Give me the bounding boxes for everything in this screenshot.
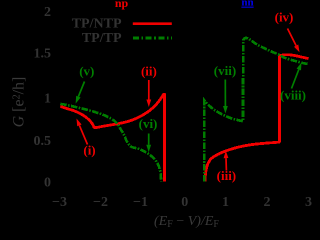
svg-text:1.5: 1.5 [34, 46, 52, 61]
svg-text:(iv): (iv) [275, 10, 294, 25]
svg-text:2: 2 [264, 195, 271, 210]
svg-text:nn: nn [241, 0, 253, 9]
svg-text:−1: −1 [133, 195, 148, 210]
arrow (i) [79, 125, 87, 144]
arrow (iii) [225, 158, 227, 170]
legend sample green dash-dot line [133, 37, 172, 40]
arrow (iv) [288, 29, 297, 46]
svg-text:(vii): (vii) [214, 63, 236, 78]
svg-text:0: 0 [44, 176, 51, 191]
svg-text:3: 3 [305, 195, 312, 210]
svg-text:1: 1 [222, 195, 229, 210]
arrow (vi) [148, 134, 150, 145]
svg-text:(v): (v) [79, 63, 94, 78]
svg-text:−2: −2 [93, 195, 108, 210]
arrow (viii) [292, 70, 299, 89]
svg-text:(ii): (ii) [141, 64, 157, 79]
svg-text:1: 1 [44, 92, 51, 107]
svg-text:(i): (i) [83, 143, 95, 158]
arrow (vii) [224, 80, 226, 107]
curve TP/NTP red left branch [60, 94, 164, 181]
arrow (v) [78, 82, 84, 97]
curve TP/TP green left branch [60, 104, 161, 182]
svg-text:−3: −3 [52, 195, 67, 210]
curve TP/TP green right branch [204, 38, 308, 182]
svg-text:(EF − V)/EF: (EF − V)/EF [154, 214, 219, 230]
svg-text:2: 2 [44, 5, 51, 20]
svg-text:0: 0 [181, 195, 188, 210]
svg-text:0.5: 0.5 [34, 134, 52, 149]
svg-text:np: np [115, 0, 129, 10]
svg-text:TP/NTP: TP/NTP [72, 17, 122, 32]
legend sample red line [133, 22, 172, 25]
curve TP/NTP red right branch [205, 55, 309, 182]
svg-text:(viii): (viii) [280, 88, 306, 103]
svg-text:G [e2/h]: G [e2/h] [11, 77, 28, 128]
svg-text:(vi): (vi) [139, 116, 158, 131]
arrow (ii) [148, 80, 150, 100]
svg-text:TP/TP: TP/TP [82, 31, 122, 46]
